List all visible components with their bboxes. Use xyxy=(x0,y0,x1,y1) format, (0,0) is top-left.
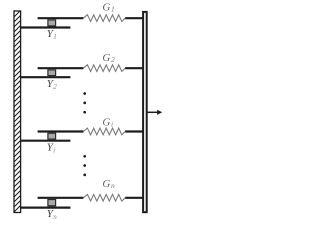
svg-text:G: G xyxy=(102,116,110,128)
svg-text:1: 1 xyxy=(53,33,57,41)
svg-text:i: i xyxy=(53,146,55,154)
svg-text:n: n xyxy=(111,181,115,190)
svg-text:2: 2 xyxy=(111,55,115,64)
svg-text:G: G xyxy=(102,52,110,64)
svg-text:i: i xyxy=(111,119,113,128)
svg-text:2: 2 xyxy=(53,83,57,91)
svg-text:G: G xyxy=(102,178,110,190)
svg-text:n: n xyxy=(53,213,57,221)
svg-text:G: G xyxy=(102,1,110,13)
svg-text:1: 1 xyxy=(111,4,115,13)
